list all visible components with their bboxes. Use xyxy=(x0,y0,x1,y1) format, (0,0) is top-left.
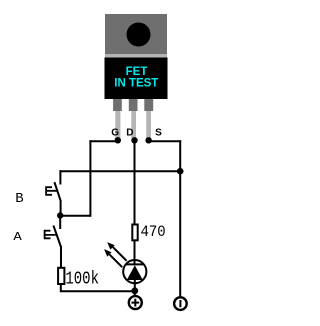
switch A arm xyxy=(53,226,61,248)
LED arrow 2 xyxy=(109,254,122,267)
terminal minus (battery -) xyxy=(174,297,187,310)
transistor tab xyxy=(105,14,167,54)
transistor U1 (FET in test, TO-220 package) xyxy=(105,14,168,141)
leg D xyxy=(131,111,136,141)
svg-text:D: D xyxy=(126,128,133,139)
wire G horizontal xyxy=(89,140,117,142)
wire resistor bottom xyxy=(61,285,135,292)
transistor tab lower strip xyxy=(105,54,167,58)
node G (junction dot) xyxy=(115,137,121,143)
LED arrow 1 xyxy=(112,246,127,261)
node right rail junction xyxy=(177,168,184,175)
wire switch B top xyxy=(59,170,61,184)
svg-text:100k: 100k xyxy=(65,268,99,289)
wire switch A bottom xyxy=(60,246,62,267)
leg G xyxy=(115,111,120,141)
node LED bottom junction xyxy=(131,287,138,294)
node switch junction xyxy=(57,212,63,218)
svg-text:FET: FET xyxy=(126,66,148,78)
wire LED to plus terminal xyxy=(134,279,136,296)
wire right rail vertical xyxy=(179,140,181,297)
leg stub G xyxy=(113,99,122,111)
node D (junction dot) xyxy=(131,137,137,143)
LED D1 xyxy=(104,242,146,283)
leg stub S xyxy=(144,99,153,111)
transistor body xyxy=(105,58,168,100)
wire G vertical xyxy=(89,140,91,216)
LED circle xyxy=(123,260,146,283)
svg-text:G: G xyxy=(111,128,119,139)
wire resistor 470 to LED xyxy=(134,241,136,264)
transistor mounting hole xyxy=(127,23,151,47)
leg S xyxy=(146,111,151,141)
resistor R1 100k xyxy=(58,268,64,284)
svg-text:B: B xyxy=(15,191,23,207)
terminal plus (battery +) xyxy=(129,296,142,309)
wire D vertical xyxy=(134,140,136,224)
wire switch A top xyxy=(59,216,61,230)
node S (junction dot) xyxy=(145,137,151,143)
leg stub D xyxy=(129,99,138,111)
wire top bus horizontal xyxy=(59,170,180,172)
wire S horizontal xyxy=(149,140,182,142)
switch A actuator xyxy=(44,230,57,239)
LED triangle xyxy=(127,265,143,280)
svg-text:IN TEST: IN TEST xyxy=(114,78,158,90)
switch B actuator xyxy=(45,186,57,195)
svg-text:470: 470 xyxy=(141,223,166,241)
svg-text:S: S xyxy=(155,128,162,139)
wire G to switch B junction xyxy=(60,215,90,217)
wire switch B bottom xyxy=(60,201,62,216)
resistor R2 470 xyxy=(132,225,137,241)
switch B arm xyxy=(54,182,61,202)
svg-text:A: A xyxy=(13,230,21,244)
LED cathode bar xyxy=(126,263,144,265)
